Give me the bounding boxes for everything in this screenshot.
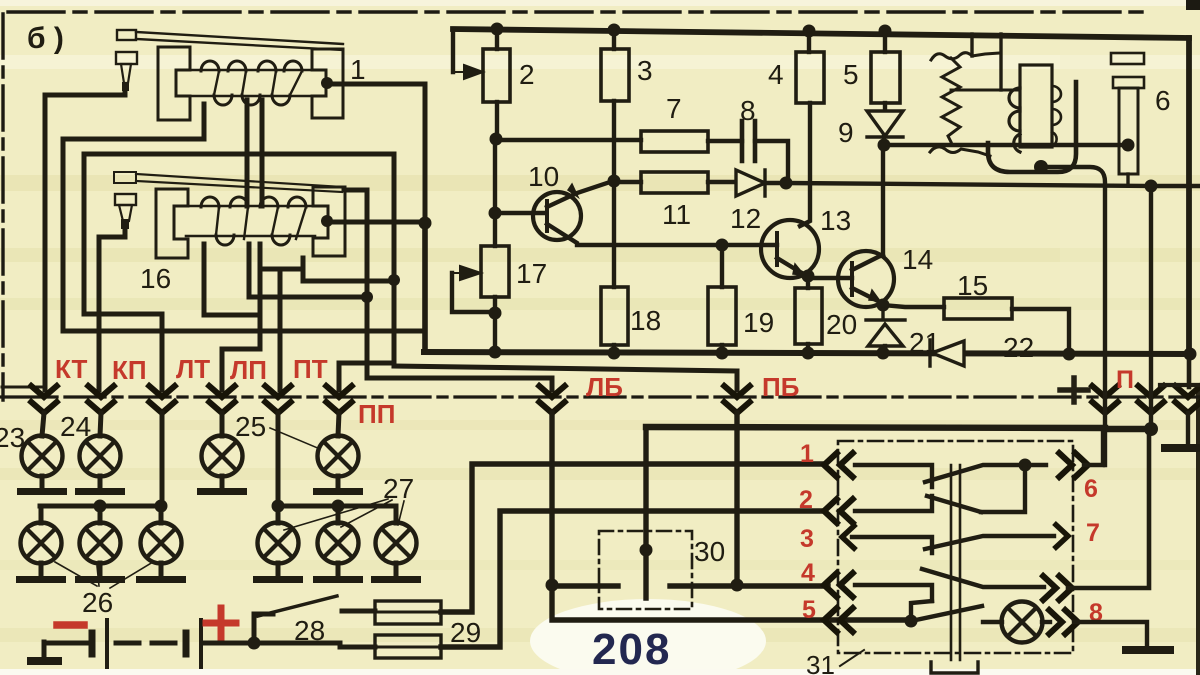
battery main wire to fuses <box>254 643 375 647</box>
svg-text:17: 17 <box>516 258 547 289</box>
svg-text:14: 14 <box>902 244 933 275</box>
relay6 heater column <box>1119 88 1138 174</box>
wire node B down to T10 base node <box>493 139 497 213</box>
relay6 heater bar 2 <box>1113 77 1144 88</box>
lamp stem PP <box>338 413 339 436</box>
wire R15 left lead <box>883 305 944 307</box>
connector arrow row2 <box>824 497 855 525</box>
connector arrow out row4 <box>1041 574 1072 602</box>
junction dot bus PT <box>272 500 285 513</box>
wire K1 tip to KT column <box>45 89 125 390</box>
row2 inner lead <box>855 496 932 511</box>
pointer 25 to right lamp <box>270 428 320 449</box>
breaker K16 yoke block left <box>156 189 188 258</box>
svg-text:5: 5 <box>802 596 816 624</box>
wire PP branch <box>339 363 394 390</box>
row1 inner lead <box>855 465 932 487</box>
transistor T10 circle <box>533 192 581 240</box>
svg-text:3: 3 <box>800 525 814 553</box>
svg-text:КТ: КТ <box>55 354 88 384</box>
blade row5 <box>911 606 982 621</box>
connector arrow P1 <box>1090 384 1120 413</box>
wire PT branch <box>260 258 394 390</box>
T13 base lead <box>718 243 777 247</box>
breaker K16 contact post taper <box>119 205 132 221</box>
junction dot node 11 <box>608 175 621 188</box>
svg-text:7: 7 <box>666 93 682 124</box>
lamp L25a ground stem <box>220 476 225 489</box>
wire R4 bottom to T13 collector <box>800 103 810 226</box>
junction dot rail R15 <box>1063 348 1076 361</box>
pilot lamp lead <box>983 620 1002 624</box>
svg-text:9: 9 <box>838 117 854 148</box>
label plus near P <box>1060 378 1088 402</box>
wire R17 bottom to rail <box>493 297 497 352</box>
stem L27c <box>394 506 399 523</box>
wire R19 top lead <box>720 245 724 287</box>
transistor T14 circle <box>838 251 894 307</box>
wire R3 top lead <box>612 30 616 49</box>
junction dot node D12 <box>780 177 793 190</box>
connector arrow PT <box>263 384 293 413</box>
svg-text:22: 22 <box>1003 332 1034 363</box>
resistor R19 <box>708 287 736 345</box>
shaft double line <box>951 465 960 660</box>
junction dot bus PP <box>332 500 345 513</box>
junction dot PB node <box>731 579 744 592</box>
wire R18 bottom <box>612 345 616 353</box>
row3 inner lead <box>852 537 932 553</box>
junction dot rail R2 <box>491 23 504 36</box>
junction dot switch30 <box>640 544 653 557</box>
svg-text:24: 24 <box>60 411 91 442</box>
svg-text:12: 12 <box>730 203 761 234</box>
junction dot battery <box>248 637 261 650</box>
page corner mark top-right <box>1186 0 1200 10</box>
junction dot R17 bottom <box>489 307 502 320</box>
svg-text:4: 4 <box>768 59 784 90</box>
lamp L26a <box>21 523 62 564</box>
resistor R4 <box>796 52 824 103</box>
switch28 blade <box>258 596 337 616</box>
emitter ground rail bottom <box>424 352 1190 354</box>
stem L27b <box>336 506 341 523</box>
wire K1 coil to K16 coil link <box>245 100 250 206</box>
T13 emitter lead <box>777 258 808 276</box>
T10 base bar <box>545 201 549 231</box>
resistor R7 <box>641 131 708 152</box>
relay6 spring hook top <box>931 53 1000 60</box>
svg-text:ЛП: ЛП <box>230 355 267 385</box>
row4 inner lead <box>855 585 932 601</box>
wire P2 column <box>1149 186 1153 429</box>
svg-text:25: 25 <box>235 411 266 442</box>
battery ground bar <box>27 657 62 665</box>
breaker K16 output dot <box>321 215 333 227</box>
relay6 coil feed wire <box>951 89 1020 92</box>
wire R5 top lead <box>883 31 887 52</box>
junction dot out6 <box>1019 459 1032 472</box>
svg-text:2: 2 <box>519 59 535 90</box>
wire R20 bottom <box>806 344 810 353</box>
ground lamp L26a <box>16 576 66 583</box>
out6 wire to bus <box>1084 429 1103 465</box>
wire LT column to bus <box>160 413 165 506</box>
svg-text:10: 10 <box>528 161 559 192</box>
breaker K1 coil top turns <box>201 61 302 71</box>
wire D9 node to relay 6 <box>884 137 1128 145</box>
connector arrow row1 <box>824 451 855 479</box>
stem L26c <box>159 506 164 523</box>
connector arrow out6 <box>1057 451 1088 479</box>
fuse output row2 wire <box>441 511 824 647</box>
svg-text:ЛТ: ЛТ <box>176 354 210 384</box>
svg-text:1: 1 <box>800 440 814 468</box>
wire PB branch <box>394 366 737 390</box>
breaker K1 contact tip <box>122 82 129 91</box>
wire K1 coil lead B horizontal <box>84 100 394 206</box>
breaker K1 contact post taper <box>121 64 131 83</box>
resistor R5 <box>871 52 900 103</box>
junction dot at heater block <box>1122 139 1135 152</box>
wire K16 tip to KP column <box>99 229 125 390</box>
row5 inner lead <box>855 618 911 622</box>
dash-dot page border left <box>1 14 4 400</box>
diode D21 <box>866 305 905 346</box>
ground lamp L23 <box>17 488 67 495</box>
fuse F2 element <box>375 646 441 649</box>
junction dot PB riser <box>388 274 400 286</box>
supply rail top <box>453 29 1189 38</box>
wire R17 wiper return <box>452 273 495 312</box>
diode D12 <box>736 170 765 196</box>
wiper arrow R2 <box>455 65 483 79</box>
svg-text:20: 20 <box>826 309 857 340</box>
resistor R15 <box>944 298 1012 319</box>
wire R5 to D9 <box>883 103 887 111</box>
relay6 heater bar 1 <box>1111 53 1144 64</box>
relay6 heater stub <box>1126 174 1129 186</box>
breaker K16 coil top turns <box>201 197 306 207</box>
blade row4 <box>922 569 1044 587</box>
lamp L25b ground stem <box>336 476 341 489</box>
ground stem L27b <box>336 563 341 577</box>
svg-text:31: 31 <box>806 650 835 675</box>
P4 frame drop <box>1187 354 1192 387</box>
wire K1 output to main riser <box>334 84 425 223</box>
breaker K16 contact post body <box>115 194 136 205</box>
svg-text:30: 30 <box>694 536 725 567</box>
breaker K1 yoke block left <box>158 47 190 120</box>
breaker K1 output dot <box>321 77 333 89</box>
crossover wire 6 to row2 level <box>981 465 1025 512</box>
lamp L27a <box>258 523 299 564</box>
svg-text:КП: КП <box>112 355 147 385</box>
T14 emitter lead <box>852 288 883 304</box>
wire LB to switch30 left contact <box>552 583 618 588</box>
breaker K16 coil bottom turns <box>216 235 290 245</box>
ground bar out8 <box>1122 646 1174 654</box>
pilot lamp <box>1002 602 1043 643</box>
wire R15 right lead to rail <box>1012 309 1069 354</box>
connector arrow row4 <box>824 571 855 599</box>
svg-text:5: 5 <box>843 59 859 90</box>
right frame drop <box>1186 38 1192 354</box>
svg-text:П: П <box>1116 366 1134 394</box>
ground lamp L26b <box>75 576 125 583</box>
svg-text:15: 15 <box>957 270 988 301</box>
pivot jog wire <box>911 601 932 621</box>
svg-text:б ): б ) <box>27 22 64 55</box>
lamp stem KP <box>100 413 101 436</box>
relay6 spring zigzag <box>942 58 960 142</box>
connector arrow LP <box>207 384 237 413</box>
svg-text:208: 208 <box>592 625 671 674</box>
connector arrow KT <box>29 384 59 413</box>
junction dot bus L24b <box>94 500 107 513</box>
lamp L23 ground stem <box>40 476 45 489</box>
svg-text:29: 29 <box>450 617 481 648</box>
fuse output row1 wire <box>441 464 824 612</box>
turn switch dash-dot box <box>838 441 1073 653</box>
breaker K16 terminal block right <box>313 187 345 256</box>
junction dot T13 emitter node <box>802 270 815 283</box>
lamp stem KT <box>42 413 44 436</box>
wire wiper feed R2 <box>451 29 455 72</box>
label minus <box>57 621 84 629</box>
connector arrow out7 <box>1054 523 1068 549</box>
switch28 contact lead <box>342 609 375 614</box>
wire LB down to row5 <box>552 585 911 620</box>
junction dot rail R17 <box>489 346 502 359</box>
switch30 riser to bus <box>643 427 648 550</box>
wire T14 collector column <box>881 145 885 255</box>
bus wire to P connector <box>646 427 1151 429</box>
junction dot main riser <box>419 217 432 230</box>
junction dot T13 base node <box>716 239 729 252</box>
ground lamp L24 <box>75 488 125 495</box>
lamp L25b <box>318 436 359 477</box>
blade row3 to out7 <box>925 536 1054 549</box>
label plus battery <box>206 608 236 638</box>
resistor R3 <box>601 49 629 101</box>
svg-text:3: 3 <box>637 55 653 86</box>
breaker K16 coil core <box>186 206 315 236</box>
junction dot rail R19 <box>716 347 729 360</box>
lamp L24 ground stem <box>98 476 103 489</box>
wire PT column to bus <box>276 413 281 506</box>
resistor R18 <box>601 287 628 345</box>
wire R20 top lead <box>806 276 810 288</box>
ground stem L27c <box>394 563 399 577</box>
ground stem L26b <box>98 563 103 577</box>
wire LB column <box>549 413 554 585</box>
P3 ground drop <box>1186 413 1190 445</box>
wiper arrow R17 <box>452 266 481 280</box>
pointer line 31 <box>840 650 864 666</box>
svg-text:1: 1 <box>350 54 366 85</box>
svg-text:13: 13 <box>820 205 851 236</box>
relay6 coil turns right <box>1052 86 1061 146</box>
svg-text:ПБ: ПБ <box>762 372 799 402</box>
wire K16 coil lead A <box>204 244 260 315</box>
connector arrow LB <box>537 384 567 413</box>
pointer 27 lines <box>284 499 404 530</box>
connector arrow LT <box>147 384 177 413</box>
ground lamp L25a <box>197 488 247 495</box>
relay6 frame drop 1 <box>970 34 973 56</box>
junction dot bus LT <box>155 500 168 513</box>
junction dot rail R18 <box>608 347 621 360</box>
wire base node down to R17 <box>493 213 497 246</box>
svg-text:26: 26 <box>82 587 113 618</box>
ground lamp L27c <box>371 576 421 583</box>
breaker K1 coil weave <box>214 71 302 95</box>
wire stub from border to KT <box>2 386 44 389</box>
junction dot rail R5 <box>879 25 892 38</box>
resistor R17 <box>481 246 509 297</box>
lamp L24 <box>80 436 121 477</box>
connector arrow KP <box>86 384 116 413</box>
transistor T13 circle <box>761 220 819 278</box>
svg-text:19: 19 <box>743 307 774 338</box>
junction dot rail R20 <box>802 347 815 360</box>
resistor R2 <box>483 49 510 102</box>
battery dashed link <box>116 641 186 646</box>
breaker K16 contact tip <box>121 219 129 229</box>
wire PB column <box>734 413 739 585</box>
junction dot LB node <box>546 579 559 592</box>
switch28 riser <box>254 614 273 643</box>
breaker K1 contact post body <box>116 52 137 64</box>
breaker K16 coil weave <box>216 207 306 239</box>
svg-text:23: 23 <box>0 422 25 453</box>
connector arrow PP <box>324 384 354 413</box>
T10 collector up to node 11 <box>547 182 610 207</box>
shaft bracket <box>931 662 978 673</box>
wire C8 to diode node <box>755 141 788 183</box>
wire R2 top lead <box>495 29 499 49</box>
wire PB PP riser <box>392 155 397 365</box>
svg-text:6: 6 <box>1084 475 1098 503</box>
wire main riser to ground rail <box>422 223 428 352</box>
fuse F1 <box>375 601 441 624</box>
junction dot rail R4 <box>803 25 816 38</box>
svg-text:4: 4 <box>801 559 815 587</box>
wire R2 bottom to node <box>495 102 499 139</box>
relay6 frame drop 2 <box>999 34 1002 90</box>
dash-dot harness divider <box>0 395 1200 398</box>
svg-text:ПП: ПП <box>358 399 395 429</box>
battery cell2 short plate <box>183 633 190 654</box>
resistor R20 <box>795 288 822 344</box>
wire R3 bottom column <box>612 101 616 287</box>
lamp bus right <box>278 504 396 509</box>
breaker K1 armature bar <box>136 32 343 50</box>
lamp L26c <box>141 523 182 564</box>
svg-text:7: 7 <box>1086 519 1100 547</box>
wire R7 to C8 <box>708 139 742 143</box>
svg-text:8: 8 <box>740 95 756 126</box>
breaker K1 terminal block right <box>312 49 343 118</box>
wire K16 coil lead B <box>249 244 367 297</box>
breaker K16 armature bar <box>136 174 342 192</box>
wire terminal to page edge <box>1151 184 1200 188</box>
capacitor C8 <box>742 121 755 161</box>
lamp bus left <box>40 504 162 509</box>
junction dot D9 node <box>878 139 891 152</box>
connector arrow row3 <box>842 524 856 550</box>
breaker K1 coil core <box>188 70 314 96</box>
wire LP column <box>222 244 260 390</box>
junction dot node B <box>490 133 503 146</box>
switch30 plunger <box>643 550 648 598</box>
relay6 coil core <box>1020 65 1052 147</box>
T14 emitter arrowhead <box>869 290 880 301</box>
svg-text:16: 16 <box>140 263 171 294</box>
wire K16 output to main riser <box>333 220 425 225</box>
pilot lamp out lead <box>1042 620 1050 624</box>
connector arrow PB <box>722 384 752 413</box>
stem L27a <box>276 506 281 523</box>
svg-text:11: 11 <box>662 199 691 230</box>
P3 ground bar <box>1161 444 1200 452</box>
wire K16 armature to LB riser <box>344 190 552 390</box>
breaker K16 armature cap <box>114 172 136 183</box>
battery ground stem <box>44 642 92 658</box>
connector arrow out8 <box>1047 608 1078 636</box>
ground lamp L27a <box>253 576 303 583</box>
lamp L27b <box>318 523 359 564</box>
wire R11 to D12 <box>708 180 736 184</box>
relay6 armature U wire <box>988 82 1076 172</box>
junction dot bus P2 <box>1144 422 1158 436</box>
diode D22 on rail <box>930 340 964 366</box>
ground stem L27a <box>276 563 281 577</box>
switch30 dash-dot box <box>599 531 692 609</box>
T10 emitter arrowhead <box>568 184 578 197</box>
lamp L23 <box>22 436 63 477</box>
battery cell1 short plate <box>89 633 96 654</box>
svg-text:6: 6 <box>1155 85 1171 116</box>
lamp L27c <box>376 523 417 564</box>
T14 collector lead <box>852 255 883 270</box>
svg-text:ЛБ: ЛБ <box>586 372 623 402</box>
junction dot rail D21 <box>877 347 890 360</box>
fuse F2 <box>375 635 441 658</box>
breaker K1 coil bottom turns <box>214 95 290 105</box>
wire T10 base <box>495 211 546 215</box>
stem L26b <box>98 506 103 523</box>
lamp L25a <box>202 436 243 477</box>
wire T14 base lead <box>808 276 852 278</box>
junction dot terminal P2 <box>1145 180 1158 193</box>
svg-text:18: 18 <box>630 305 661 336</box>
T13 base bar <box>775 233 779 265</box>
ground lamp L26c <box>136 576 186 583</box>
wire R11 left lead <box>614 180 641 184</box>
wire LT column <box>84 154 162 390</box>
T14 base bar <box>850 263 854 295</box>
long bias line to relay terminal <box>765 183 1151 186</box>
connector arrow P3 <box>1173 384 1200 413</box>
svg-text:2: 2 <box>799 486 813 514</box>
junction dot rail R3 <box>608 24 621 37</box>
wire R19 bottom <box>720 345 724 353</box>
ground stem L26a <box>39 563 44 577</box>
ground stem L26c <box>159 563 164 577</box>
relay6 spring hook bottom <box>930 147 990 156</box>
